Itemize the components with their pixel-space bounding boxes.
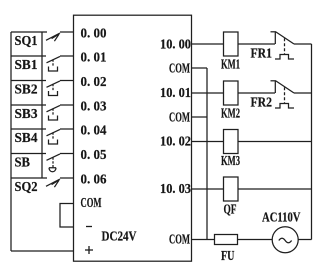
- wire row SB2: [11, 80, 46, 82]
- wire fuse to source: [238, 239, 273, 241]
- svg-text:0. 02: 0. 02: [81, 74, 107, 89]
- svg-text:SB3: SB3: [15, 106, 38, 121]
- wire row SB3: [11, 104, 46, 106]
- wire COM out to fuse: [192, 239, 215, 241]
- wire row SQ1: [11, 31, 47, 33]
- wire FR1 to right bus: [294, 43, 312, 45]
- wire row SB: [11, 153, 46, 155]
- wire 10.00 to KM1: [192, 43, 224, 45]
- svg-text:FR2: FR2: [251, 95, 273, 110]
- pushbutton SB4: [47, 129, 74, 144]
- svg-text:COM: COM: [81, 195, 102, 210]
- contactor coil KM1: [224, 32, 239, 56]
- wire + to PLC: [11, 250, 74, 252]
- fuse FU: [215, 235, 238, 245]
- svg-text:10. 03: 10. 03: [160, 181, 191, 196]
- AC source AC110V: [272, 227, 298, 253]
- wire FR2 to right bus: [294, 92, 312, 94]
- wire row SB1: [11, 55, 46, 57]
- PLC box U1: [74, 15, 192, 261]
- svg-text:SQ1: SQ1: [15, 33, 38, 48]
- svg-text:COM: COM: [169, 232, 190, 247]
- svg-text:SB2: SB2: [15, 82, 38, 97]
- limit switch SQ1: [46, 32, 74, 41]
- coil QF: [224, 177, 239, 201]
- svg-text:10. 00: 10. 00: [160, 37, 191, 52]
- svg-text:SQ2: SQ2: [15, 179, 38, 194]
- svg-text:SB4: SB4: [15, 130, 38, 145]
- svg-text:0. 00: 0. 00: [81, 26, 107, 41]
- wire KM1 to FR1: [238, 43, 275, 45]
- svg-text:0. 05: 0. 05: [81, 147, 107, 162]
- wire source to right bus: [298, 239, 311, 241]
- wire QF to right bus: [238, 188, 312, 190]
- thermal relay NC contact FR2: [271, 81, 295, 108]
- svg-text:0. 04: 0. 04: [81, 123, 107, 138]
- svg-text:DC24V: DC24V: [102, 229, 137, 244]
- wire COM stub 1: [192, 67, 207, 69]
- wire COM stub 2: [192, 116, 207, 118]
- mushroom-head stop button SB: [47, 154, 74, 172]
- right return bus: [311, 44, 313, 240]
- svg-text:COM: COM: [169, 61, 190, 76]
- svg-text:AC110V: AC110V: [262, 210, 301, 225]
- left supply rail: [10, 32, 12, 251]
- COM output bus: [206, 68, 208, 240]
- terminal label minus: [86, 226, 92, 228]
- svg-text:KM2: KM2: [221, 106, 240, 121]
- contactor coil KM3: [224, 130, 239, 154]
- thermal relay NC contact FR1: [271, 32, 295, 59]
- svg-text:KM3: KM3: [221, 153, 240, 168]
- svg-text:SB: SB: [15, 155, 31, 170]
- svg-text:QF: QF: [224, 202, 237, 217]
- svg-text:COM: COM: [169, 110, 190, 125]
- wire COM to minus link: [60, 204, 74, 228]
- wire 10.03 to QF: [192, 188, 224, 190]
- svg-text:0. 01: 0. 01: [81, 50, 107, 65]
- svg-text:FR1: FR1: [251, 46, 273, 61]
- label column divider: [41, 32, 43, 178]
- wire 10.02 to KM3: [192, 141, 224, 143]
- wire 10.01 to KM2: [192, 92, 224, 94]
- svg-text:FU: FU: [221, 248, 235, 263]
- wire row SQ2: [11, 177, 47, 179]
- svg-text:SB1: SB1: [15, 57, 38, 72]
- svg-text:10. 01: 10. 01: [160, 85, 191, 100]
- wire row SB4: [11, 128, 46, 130]
- wire KM3 to right bus: [238, 141, 312, 143]
- pushbutton SB1: [47, 56, 74, 71]
- contactor coil KM2: [224, 81, 239, 105]
- pushbutton SB3: [47, 105, 74, 120]
- limit switch SQ2: [46, 178, 74, 187]
- svg-text:10. 02: 10. 02: [160, 134, 191, 149]
- wire KM2 to FR2: [238, 92, 275, 94]
- svg-text:KM1: KM1: [221, 57, 240, 72]
- svg-text:0. 03: 0. 03: [81, 99, 107, 114]
- pushbutton SB2: [47, 81, 74, 96]
- terminal label plus: [85, 246, 93, 254]
- svg-text:0. 06: 0. 06: [81, 172, 107, 187]
